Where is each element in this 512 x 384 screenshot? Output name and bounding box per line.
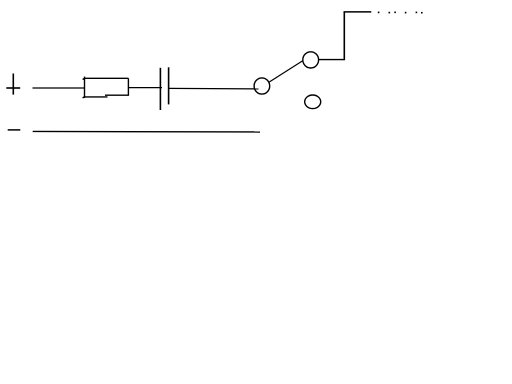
switch SW1 throw contact [303, 52, 319, 68]
capacitor C1 [160, 67, 168, 110]
wire [33, 130, 260, 133]
switch SW1 arm [269, 61, 303, 82]
wire [319, 59, 345, 61]
wire [344, 11, 372, 13]
node + terminal [6, 74, 20, 95]
wire [343, 12, 345, 60]
wire [33, 87, 85, 89]
wire [169, 87, 259, 90]
wire [128, 87, 162, 89]
switch SW1 unused contact [305, 95, 321, 109]
switch SW1 pole contact [254, 78, 270, 94]
resistor R1 [83, 77, 129, 98]
node - terminal [8, 129, 21, 131]
dotted wire continuation [378, 12, 423, 14]
